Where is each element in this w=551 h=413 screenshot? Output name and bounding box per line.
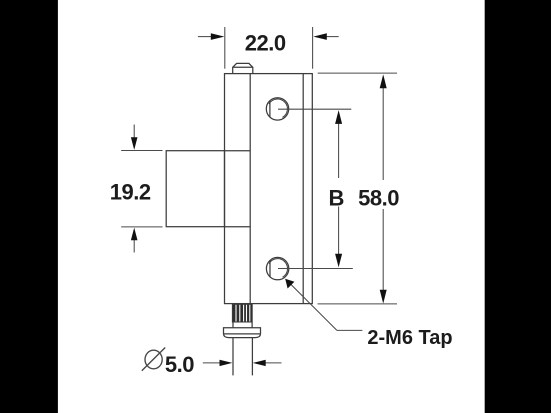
bottom hole chord — [269, 260, 271, 277]
lower pin right side — [251, 338, 253, 376]
top hole center line to B dim — [278, 108, 351, 110]
leader line 2-M6 Tap horizontal — [337, 329, 363, 331]
leader line 2-M6 Tap diagonal — [290, 284, 337, 331]
white drawing sheet — [58, 0, 485, 413]
black side bar left — [0, 0, 58, 413]
diameter symbol circle — [145, 350, 162, 369]
dim 19.2 bottom line — [121, 226, 162, 228]
bottom hole thread arc — [269, 259, 287, 277]
top hole chord — [269, 101, 271, 118]
dia 5.0 right arrowhead — [253, 360, 266, 366]
pin neck left — [232, 322, 234, 328]
pin neck right — [251, 322, 253, 328]
svg-text:B: B — [328, 186, 344, 211]
dim 19.2 bottom arrow tail — [133, 239, 135, 253]
knurl section outline — [233, 305, 253, 322]
hinge plate (right leaf) outline — [225, 74, 313, 304]
dim 22.0 right arrow tail — [325, 36, 339, 38]
dim B vertical line upper — [338, 122, 340, 178]
leader 2-M6 Tap arrowhead — [285, 279, 294, 289]
diameter symbol slash — [142, 348, 165, 371]
dim 19.2 top line — [121, 150, 162, 152]
pin top cap — [233, 63, 253, 73]
dim 22.0 right arrowhead — [313, 33, 327, 40]
dim 22.0 right extension line — [312, 27, 314, 69]
plate inner right edge line — [302, 74, 304, 304]
dim 58.0 bottom extension line — [318, 303, 398, 305]
lower pin left side — [232, 338, 234, 376]
barrel knuckle division upper — [225, 150, 251, 152]
washer outline — [224, 328, 261, 338]
pin top cap chamfer line — [233, 66, 253, 68]
dim 58.0 vertical line upper — [382, 87, 384, 181]
dim 22.0 left arrowhead — [211, 33, 225, 40]
dim 19.2 top arrowhead — [131, 137, 138, 150]
bottom hole center line to B dim — [278, 268, 353, 270]
svg-text:58.0: 58.0 — [358, 185, 399, 210]
top hole outer circle — [266, 98, 288, 120]
dim 58.0 bottom arrowhead — [380, 290, 387, 304]
barrel knuckle division lower — [225, 226, 251, 228]
svg-text:19.2: 19.2 — [110, 180, 151, 205]
knurl hatching — [233, 305, 252, 322]
black side bar right — [485, 0, 551, 413]
svg-text:22.0: 22.0 — [245, 30, 286, 55]
bottom hole outer circle — [266, 257, 288, 279]
dia 5.0 left arrow tail — [203, 362, 221, 364]
svg-text:5.0: 5.0 — [165, 352, 194, 377]
dim 22.0 left extension line — [224, 27, 226, 69]
dim 19.2 bottom arrowhead — [131, 228, 138, 241]
dia 5.0 left arrowhead — [220, 360, 233, 366]
top hole thread arc — [269, 99, 287, 117]
dim 58.0 top arrowhead — [380, 74, 387, 88]
dia 5.0 right arrow tail — [264, 362, 282, 364]
dim 19.2 top arrow tail — [133, 125, 135, 140]
dim B vertical line lower — [338, 207, 340, 257]
washer mid line — [224, 333, 261, 335]
dim 58.0 vertical line lower — [382, 209, 384, 292]
dim 22.0 left arrow tail — [198, 36, 213, 38]
barrel-plate junction line — [249, 74, 251, 304]
dim B bottom arrowhead — [335, 254, 342, 268]
left leaf block — [166, 151, 224, 227]
dim 58.0 top extension line — [318, 72, 397, 74]
dim B top arrowhead — [335, 110, 342, 124]
svg-text:2-M6 Tap: 2-M6 Tap — [367, 327, 452, 349]
